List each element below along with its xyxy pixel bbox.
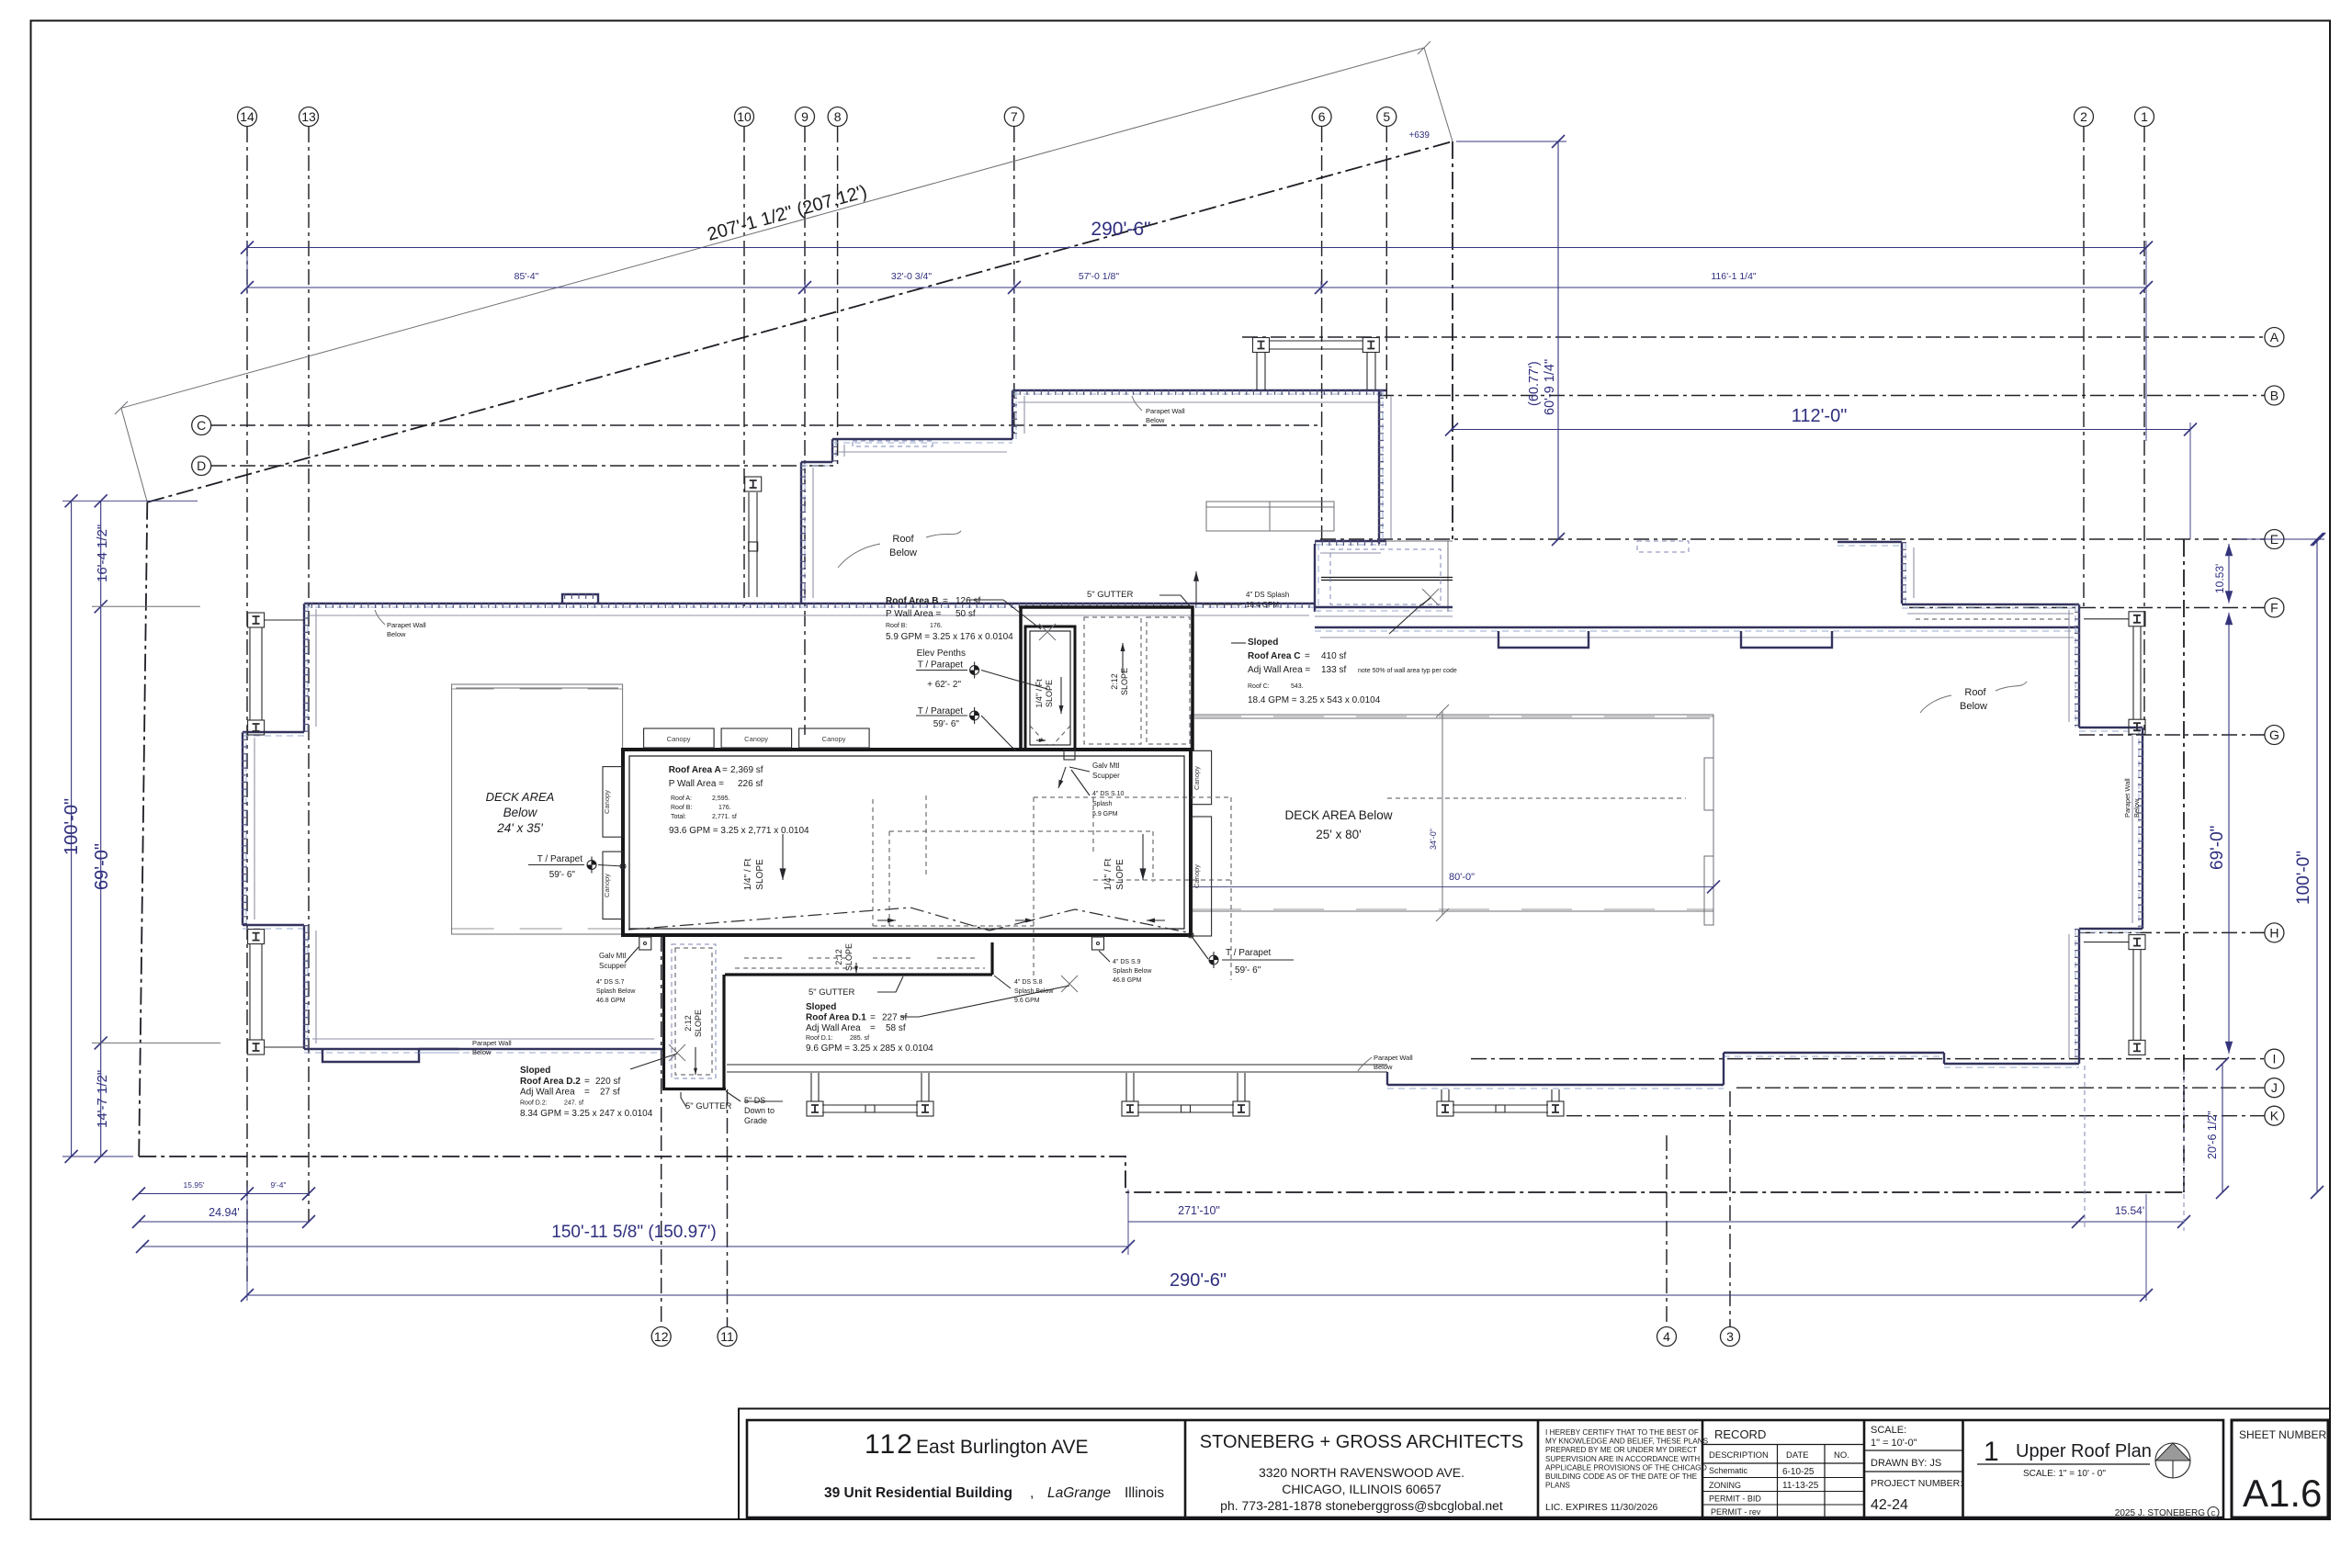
svg-text:A: A [2270, 330, 2279, 344]
svg-text:11-13-25: 11-13-25 [1782, 1481, 1819, 1491]
svg-text:10.53': 10.53' [2213, 564, 2226, 593]
svg-text:=: = [870, 1013, 876, 1023]
svg-text:Parapet Wall: Parapet Wall [1146, 407, 1185, 415]
dashed tabs below upper wall [853, 441, 933, 446]
left dim extension lines [62, 500, 198, 502]
svg-text:Roof D.2:: Roof D.2: [520, 1100, 548, 1107]
svg-text:SHEET NUMBER:: SHEET NUMBER: [2239, 1428, 2329, 1441]
svg-text:1: 1 [2141, 109, 2148, 124]
svg-text:100'-0": 100'-0" [2294, 851, 2313, 905]
svg-text:100'-0": 100'-0" [62, 798, 82, 855]
grid line 10 [743, 127, 745, 608]
left deck area [452, 684, 623, 934]
property line south edge [139, 1156, 2184, 1192]
interior dashed unit outlines [873, 795, 1034, 926]
grid line 14 [246, 127, 248, 1286]
bottom dim 150-11 5/8 [142, 1246, 1128, 1247]
svg-text:C: C [197, 418, 206, 433]
svg-text:Galv Mtl: Galv Mtl [1092, 761, 1120, 770]
207 ft dimension diagonal line [121, 48, 1424, 408]
x marks [1039, 624, 1056, 640]
bottom dim 24.94 [139, 1221, 309, 1223]
svg-text:T / Parapet: T / Parapet [537, 854, 583, 864]
scupper left [639, 937, 651, 950]
svg-text:543.: 543. [1291, 683, 1304, 690]
svg-text:Roof Area B: Roof Area B [886, 596, 938, 606]
dashed canopy below F wall [1916, 618, 2072, 620]
svg-text:Adj Wall Area: Adj Wall Area [520, 1088, 575, 1098]
grid line G [2079, 734, 2265, 736]
svg-text:150'-11 5/8" (150.97'): 150'-11 5/8" (150.97') [551, 1223, 717, 1242]
svg-text:60'-9 1/4": 60'-9 1/4" [1543, 359, 1557, 415]
svg-text:112: 112 [865, 1429, 914, 1460]
svg-text:=: = [1305, 651, 1310, 661]
svg-text:ph. 773-281-1878 stoneberggr: ph. 773-281-1878 stoneberggross@sbcgloba… [1220, 1498, 1503, 1513]
step down to F [1901, 542, 1903, 604]
svg-text:Below: Below [1374, 1063, 1393, 1071]
grid line 6 [1321, 127, 1323, 542]
svg-text:18.4 GPM: 18.4 GPM [1246, 601, 1279, 609]
svg-text:10: 10 [737, 109, 752, 124]
svg-text:Canopy: Canopy [667, 735, 691, 743]
B fold marks [1030, 726, 1070, 745]
svg-text:Sloped: Sloped [806, 1002, 836, 1012]
right dim 69-0 [2228, 613, 2230, 1054]
svg-text:SCALE:: SCALE: [1871, 1425, 1906, 1436]
property line west edge [139, 502, 147, 1156]
svg-text:ZONING: ZONING [1709, 1481, 1741, 1490]
grid line 11 [727, 1089, 729, 1327]
svg-text:1/4" / Ft: 1/4" / Ft [1035, 679, 1044, 708]
upper block interior canopy post [745, 477, 762, 491]
south wall mid segment [1724, 1052, 1944, 1054]
svg-text:H: H [2269, 925, 2278, 940]
grid line I [1471, 1058, 2265, 1060]
right dim 20-6 1/2 [2222, 1064, 2223, 1192]
svg-text:59'- 6": 59'- 6" [1235, 965, 1261, 976]
roof D.2 right edge [722, 975, 725, 1089]
svg-text:290'-6": 290'-6" [1091, 219, 1150, 240]
east wall H-I [2078, 929, 2080, 1064]
svg-text:8: 8 [834, 109, 842, 124]
upper block west edge [800, 462, 802, 604]
svg-text:Sloped: Sloped [1248, 637, 1278, 648]
grid line 8 [837, 127, 839, 464]
east recess columns F-G [2129, 612, 2145, 626]
svg-text:3320 NORTH RAVENSWOOD AVE.: 3320 NORTH RAVENSWOOD AVE. [1259, 1465, 1464, 1480]
svg-text:Roof B:: Roof B: [671, 805, 692, 811]
svg-text:5" GUTTER: 5" GUTTER [1087, 590, 1133, 600]
svg-text:note 50% of wall area typ per: note 50% of wall area typ per code [1358, 668, 1457, 674]
svg-text:+ 62'- 2": + 62'- 2" [927, 680, 961, 690]
grid line J [1736, 1087, 2265, 1089]
svg-text:5.9 GPM: 5.9 GPM [1092, 811, 1118, 818]
svg-text:SUPERVISION ARE IN ACCORDANCE: SUPERVISION ARE IN ACCORDANCE WITH [1545, 1455, 1700, 1463]
parapet wall: west wing bottom [304, 1048, 459, 1050]
grid line 12 [661, 936, 662, 1327]
svg-text:7: 7 [1011, 109, 1018, 124]
svg-text:16'-4 1/2": 16'-4 1/2" [95, 525, 110, 582]
svg-text:93.6 GPM = 3.25 x 2,771 x 0.01: 93.6 GPM = 3.25 x 2,771 x 0.0104 [669, 826, 809, 836]
grid line F [1909, 607, 2265, 609]
svg-text:24.94': 24.94' [209, 1206, 240, 1219]
right dim 100-0 [2316, 539, 2318, 1192]
svg-text:Splash Below: Splash Below [1014, 988, 1054, 995]
svg-text:126 sf: 126 sf [955, 596, 980, 606]
svg-text:Canopy: Canopy [603, 790, 611, 814]
grid line E [1320, 538, 2265, 540]
svg-text:133 sf: 133 sf [1321, 665, 1346, 675]
grid line C [211, 424, 1320, 426]
svg-text:4" DS Splash: 4" DS Splash [1246, 591, 1289, 599]
svg-text:46.8 GPM: 46.8 GPM [596, 998, 626, 1004]
property line east edge [2183, 539, 2185, 1192]
gray roof hatch box below E [1206, 502, 1334, 531]
left dim 100-0 [71, 501, 73, 1156]
svg-text:Canopy: Canopy [822, 735, 846, 743]
parapet wall: west outer edge [242, 732, 243, 925]
svg-text:East Burlington AVE: East Burlington AVE [916, 1437, 1089, 1458]
roof D.1 gutter top edge [725, 973, 992, 976]
south wall right segment [1944, 1063, 2079, 1065]
title block notch [739, 1409, 2330, 1520]
svg-text:DATE: DATE [1786, 1450, 1809, 1461]
property line north diagonal [147, 141, 1453, 502]
svg-text:SCALE: 1" = 10' - 0": SCALE: 1" = 10' - 0" [2023, 1469, 2106, 1479]
svg-text:Roof D.1:: Roof D.1: [806, 1035, 833, 1042]
svg-text:1/4" / Ft: 1/4" / Ft [743, 858, 753, 890]
grid line 13 [308, 127, 310, 1222]
bottom dim 271-10 [1128, 1221, 2078, 1223]
svg-text:4" DS S.8: 4" DS S.8 [1014, 979, 1043, 986]
svg-text:T / Parapet: T / Parapet [918, 660, 964, 671]
extension dashed verticals [2084, 1066, 2086, 1231]
svg-text:=: = [943, 596, 948, 606]
svg-text:Parapet Wall: Parapet Wall [1374, 1054, 1413, 1062]
grid line A [1242, 336, 2265, 338]
svg-text:DESCRIPTION: DESCRIPTION [1709, 1450, 1769, 1461]
svg-text:227 sf: 227 sf [882, 1013, 907, 1023]
svg-text:DECK AREA: DECK AREA [486, 790, 555, 804]
notch 1 [1498, 631, 1589, 648]
svg-text:4" DS S.7: 4" DS S.7 [596, 979, 625, 986]
sheet number box [2232, 1420, 2328, 1517]
top canopies [644, 728, 715, 748]
svg-text:116'-1 1/4": 116'-1 1/4" [1711, 271, 1757, 282]
svg-text:CHICAGO, ILLINOIS 60657: CHICAGO, ILLINOIS 60657 [1282, 1482, 1442, 1496]
svg-text:Below: Below [503, 806, 538, 819]
svg-text:Elev Penths: Elev Penths [917, 649, 966, 659]
grid line H [2079, 931, 2265, 933]
svg-text:PERMIT - BID: PERMIT - BID [1709, 1495, 1761, 1504]
svg-text:4: 4 [1663, 1329, 1670, 1344]
svg-text:PREPARED BY ME OR UNDER MY DIR: PREPARED BY ME OR UNDER MY DIRECT [1545, 1446, 1697, 1454]
roof C gutter line [1321, 577, 1453, 579]
svg-text:290'-6": 290'-6" [1170, 1270, 1227, 1291]
svg-text:57'-0 1/8": 57'-0 1/8" [1079, 271, 1120, 282]
svg-text:58 sf: 58 sf [886, 1023, 906, 1033]
svg-text:Splash Below: Splash Below [596, 988, 636, 995]
roof C dashed inset [1330, 549, 1441, 604]
top wall notch [562, 594, 598, 604]
svg-text:9: 9 [801, 109, 808, 124]
svg-text:Down to: Down to [744, 1106, 775, 1115]
svg-text:I HEREBY CERTIFY THAT TO THE B: I HEREBY CERTIFY THAT TO THE BEST OF [1545, 1428, 1699, 1437]
svg-text:Below: Below [2132, 798, 2141, 818]
parapet wall: west wing top (north parapet of main run) [304, 603, 1315, 604]
svg-text:+639: +639 [1408, 130, 1430, 141]
svg-text:4" DS S.10: 4" DS S.10 [1092, 791, 1124, 797]
svg-text:SLOPE: SLOPE [1120, 668, 1129, 695]
svg-text:PLANS: PLANS [1545, 1482, 1570, 1490]
svg-text:SLOPE: SLOPE [694, 1010, 703, 1037]
grid line B [1378, 395, 2265, 397]
courtyard canopy columns [807, 1101, 823, 1116]
svg-text:MY KNOWLEDGE AND BELIEF, THESE: MY KNOWLEDGE AND BELIEF, THESE PLANS [1545, 1438, 1709, 1446]
svg-text:5: 5 [1383, 109, 1390, 124]
svg-text:8.34 GPM = 3.25 x 247 x 0.0104: 8.34 GPM = 3.25 x 247 x 0.0104 [520, 1109, 653, 1119]
bottom dims 15.95 / 9-4 [139, 1193, 309, 1195]
svg-text:(60.77'): (60.77') [1527, 361, 1542, 406]
notch 2 [1741, 631, 1832, 648]
svg-text:BUILDING CODE AS OF THE DATE O: BUILDING CODE AS OF THE DATE OF THE [1545, 1472, 1698, 1481]
svg-text:SLOPE: SLOPE [755, 859, 765, 890]
svg-text:20'-6 1/2": 20'-6 1/2" [2206, 1111, 2219, 1159]
roof D.2 bottom gutter [662, 1088, 726, 1090]
step left at H [2079, 928, 2143, 930]
east wall G-H [2142, 728, 2143, 929]
svg-text:Galv Mtl: Galv Mtl [599, 952, 627, 960]
roof D.2 dashed inset [672, 944, 716, 1078]
svg-text:59'- 6": 59'- 6" [549, 870, 576, 880]
svg-text:STONEBERG + GROSS ARCHITECTS: STONEBERG + GROSS ARCHITECTS [1200, 1432, 1523, 1452]
80-0 dim [1191, 886, 1713, 887]
svg-text:Canopy: Canopy [1193, 864, 1201, 888]
svg-text:5" GUTTER: 5" GUTTER [685, 1101, 731, 1111]
svg-text:9.6 GPM: 9.6 GPM [1014, 998, 1040, 1004]
svg-text:NO.: NO. [1834, 1450, 1849, 1461]
svg-text:C: C [2211, 1511, 2215, 1517]
svg-text:42-24: 42-24 [1871, 1497, 1908, 1513]
svg-text:Below: Below [472, 1048, 492, 1056]
svg-text:Upper Roof Plan: Upper Roof Plan [2016, 1441, 2152, 1461]
grid line K [1566, 1115, 2265, 1117]
svg-text:Roof A:: Roof A: [671, 795, 692, 802]
svg-text:9'-4": 9'-4" [271, 1180, 287, 1190]
roof area B inner penthouse [1025, 626, 1075, 750]
east recess columns H-I [2129, 935, 2145, 950]
svg-text:2,595.: 2,595. [712, 795, 730, 802]
svg-text:39 Unit Residential Building: 39 Unit Residential Building [824, 1485, 1012, 1501]
svg-text:18.4 GPM = 3.25 x 543 x 0.0104: 18.4 GPM = 3.25 x 543 x 0.0104 [1248, 695, 1381, 705]
svg-text:1" = 10'-0": 1" = 10'-0" [1871, 1438, 1917, 1449]
svg-text:176.: 176. [718, 805, 731, 811]
left deck top tabs [452, 688, 622, 690]
svg-text:Grade: Grade [744, 1116, 767, 1125]
svg-text:69'-0": 69'-0" [92, 843, 112, 890]
roof area A block inner line [629, 756, 1184, 929]
svg-text:271'-10": 271'-10" [1178, 1204, 1220, 1217]
svg-text:SLOPE: SLOPE [1045, 680, 1054, 707]
svg-text:15.54': 15.54' [2115, 1204, 2144, 1217]
svg-text:226 sf: 226 sf [738, 779, 763, 789]
svg-text:Sloped: Sloped [520, 1066, 550, 1076]
svg-text:Splash: Splash [1092, 801, 1113, 807]
svg-text:DRAWN BY: JS: DRAWN BY: JS [1871, 1458, 1941, 1469]
svg-text:59'- 6": 59'- 6" [933, 719, 960, 729]
svg-text:=: = [584, 1077, 590, 1087]
svg-text:Roof Area A: Roof Area A [669, 765, 721, 775]
svg-text:14'-7 1/2": 14'-7 1/2" [95, 1070, 110, 1128]
svg-text:2: 2 [2080, 109, 2087, 124]
svg-text:LaGrange: LaGrange [1047, 1485, 1111, 1501]
svg-text:Roof Area D.2: Roof Area D.2 [520, 1077, 581, 1087]
svg-text:Canopy: Canopy [603, 874, 611, 897]
left canopies [603, 767, 623, 838]
svg-text:Adj Wall Area =: Adj Wall Area = [1248, 665, 1310, 675]
svg-text:2:12: 2:12 [684, 1015, 693, 1032]
svg-text:LIC. EXPIRES 11/30/2026: LIC. EXPIRES 11/30/2026 [1545, 1502, 1658, 1513]
grid line 3 [1729, 1091, 1731, 1327]
svg-text:410 sf: 410 sf [1321, 651, 1346, 661]
svg-text:B: B [2270, 389, 2278, 403]
svg-text:J: J [2271, 1080, 2278, 1095]
svg-text:=: = [584, 1088, 590, 1098]
svg-text:PROJECT NUMBER:: PROJECT NUMBER: [1871, 1478, 1962, 1489]
right dim 10.53 [2228, 544, 2230, 604]
east wall F-G [2078, 604, 2080, 728]
right deck area [1191, 715, 1713, 911]
roof area A block outer [623, 750, 1191, 935]
grid line 7 [1013, 127, 1015, 434]
svg-text:RECORD: RECORD [1714, 1427, 1766, 1441]
svg-text:Parapet Wall: Parapet Wall [2123, 778, 2131, 818]
svg-text:P Wall Area =: P Wall Area = [886, 609, 941, 619]
svg-text:PERMIT - rev: PERMIT - rev [1711, 1507, 1761, 1517]
parapet wall: west step left [243, 731, 304, 733]
svg-text:2,369 sf: 2,369 sf [730, 765, 763, 775]
svg-text:Canopy: Canopy [1193, 766, 1201, 790]
roof C bottom wall [1315, 606, 1453, 608]
left dim chain [100, 501, 102, 1156]
east edge of upper block [1378, 390, 1380, 544]
south wall segment y1181 [1387, 1084, 1724, 1086]
grid line 1 [2143, 127, 2145, 730]
E-line wall segment [1837, 541, 1902, 543]
dim 112-0 [1452, 429, 2190, 431]
svg-text:69'-0": 69'-0" [2208, 826, 2227, 870]
svg-text:Roof B:: Roof B: [886, 623, 907, 629]
upper block mid wall [832, 438, 1012, 440]
svg-text:9.6 GPM = 3.25 x 285 x 0.0104: 9.6 GPM = 3.25 x 285 x 0.0104 [806, 1043, 933, 1054]
bottom dim 15.54 [2078, 1221, 2184, 1223]
parapet wall notch bottom [322, 1049, 419, 1062]
svg-text:285. sf: 285. sf [850, 1035, 869, 1042]
parapet wall: bottom run to courtyard [419, 1048, 663, 1050]
svg-text:85'-4": 85'-4" [514, 271, 539, 282]
svg-text:Roof Area D.1: Roof Area D.1 [806, 1013, 866, 1023]
svg-text:Roof Area C: Roof Area C [1248, 651, 1300, 661]
dim line segments 85-4 etc [247, 287, 2146, 288]
svg-text:Scupper: Scupper [599, 962, 627, 970]
D.1 dashes above gutter [735, 967, 985, 969]
svg-text:Illinois: Illinois [1125, 1485, 1164, 1501]
svg-text:25' x 80': 25' x 80' [1316, 828, 1361, 841]
svg-text:SLOPE: SLOPE [844, 943, 854, 971]
svg-text:Adj Wall Area: Adj Wall Area [806, 1023, 861, 1033]
svg-text:Total:: Total: [671, 814, 686, 820]
svg-text:2:12: 2:12 [834, 949, 843, 965]
svg-text:A1.6: A1.6 [2243, 1472, 2322, 1515]
svg-text:32'-0 3/4": 32'-0 3/4" [891, 271, 933, 282]
svg-text:I: I [2272, 1052, 2276, 1066]
svg-text:Roof: Roof [1964, 687, 1986, 698]
parapet wall: west wing left edge lower [303, 925, 305, 1049]
roof area B outer box [1021, 607, 1193, 750]
svg-text:112'-0": 112'-0" [1792, 406, 1848, 426]
svg-text:P Wall Area =: P Wall Area = [669, 779, 724, 789]
svg-text:12: 12 [654, 1329, 669, 1344]
dim 290-6 top [247, 247, 2146, 249]
svg-text:Roof: Roof [892, 534, 914, 545]
svg-text:1: 1 [1984, 1437, 1999, 1467]
grid line 5 [1385, 127, 1387, 400]
scupper right [1092, 937, 1104, 950]
svg-text:APPLICABLE PROVISIONS OF THE C: APPLICABLE PROVISIONS OF THE CHICAGO [1545, 1463, 1707, 1472]
title box dividers [1184, 1420, 1187, 1517]
svg-text:6-10-25: 6-10-25 [1782, 1467, 1815, 1477]
dashed tab below E wall [1637, 541, 1689, 552]
svg-text:Scupper: Scupper [1092, 772, 1120, 780]
svg-text:247. sf: 247. sf [564, 1100, 583, 1107]
property line at grid5 vertical [1452, 141, 1453, 539]
svg-text:1/4" / Ft: 1/4" / Ft [1103, 858, 1114, 890]
svg-text:24' x 35': 24' x 35' [496, 821, 543, 835]
north canopy columns [1253, 338, 1270, 353]
grid line 2 [2083, 127, 2085, 609]
svg-text:Below: Below [1960, 701, 1987, 712]
title block inner box [747, 1420, 2223, 1517]
north parapet of lower-right wing (with notches) [1315, 626, 2079, 628]
north wall of upper block [1012, 389, 1386, 391]
svg-text:D: D [197, 458, 206, 473]
svg-text:Below: Below [387, 630, 406, 638]
svg-text:4" DS S.9: 4" DS S.9 [1113, 959, 1141, 965]
svg-text:T / Parapet: T / Parapet [1226, 948, 1272, 958]
svg-text:F: F [2270, 601, 2278, 615]
svg-text:34'-0": 34'-0" [1429, 829, 1438, 850]
svg-text:T / Parapet: T / Parapet [918, 706, 964, 716]
svg-text:5" DS: 5" DS [744, 1096, 765, 1105]
grid line D [211, 465, 836, 467]
svg-text:176.: 176. [930, 623, 943, 629]
svg-text:15.95': 15.95' [184, 1180, 205, 1190]
svg-text:=: = [722, 765, 728, 775]
left deck bottom tabs [452, 928, 622, 930]
svg-text:=: = [870, 1023, 876, 1033]
north arrow [2155, 1443, 2190, 1478]
svg-text:46.8 GPM: 46.8 GPM [1113, 977, 1142, 984]
svg-text:,: , [1030, 1485, 1034, 1501]
roof area C box [1315, 540, 1386, 542]
grid line 9 [804, 127, 806, 735]
svg-text:Below: Below [889, 547, 917, 558]
svg-text:Parapet Wall: Parapet Wall [387, 621, 426, 629]
upper block step [801, 461, 832, 463]
svg-text:3: 3 [1726, 1329, 1734, 1344]
grid line 4 [1666, 1135, 1668, 1327]
svg-text:220 sf: 220 sf [595, 1077, 620, 1087]
